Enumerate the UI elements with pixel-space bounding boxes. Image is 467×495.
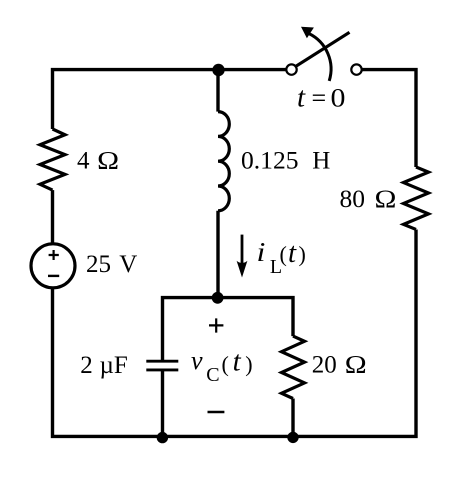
label 0.125 H	[241, 148, 330, 175]
wire 20-ohm branch lower	[291, 399, 294, 437]
node bottom-left junction	[157, 432, 168, 443]
resistor R1 4 ohm	[40, 129, 65, 190]
svg-text:(: (	[222, 352, 229, 377]
node top junction	[212, 64, 224, 76]
wire left middle segment	[51, 190, 54, 244]
resistor R2 80 ohm	[404, 167, 429, 229]
svg-text:): )	[245, 352, 252, 377]
svg-text:µF: µF	[100, 352, 128, 379]
wire middle branch upper	[216, 70, 219, 112]
svg-text:Ω: Ω	[375, 185, 397, 212]
wire capacitor branch lower	[161, 370, 164, 436]
svg-text:0: 0	[331, 84, 346, 113]
inductor L1 0.125 H	[218, 112, 229, 211]
resistor R3 20 ohm	[282, 336, 305, 398]
label 20 ohm	[312, 351, 367, 379]
switch SW1 right terminal	[351, 64, 361, 74]
svg-text:t: t	[233, 346, 242, 378]
label iL(t)	[257, 237, 306, 278]
node middle junction	[212, 292, 224, 304]
label 4 ohm	[77, 146, 119, 174]
svg-text:20: 20	[312, 352, 337, 379]
polarity minus sign for vC	[208, 411, 225, 414]
svg-text:i: i	[257, 238, 266, 267]
voltage source plus sign	[49, 250, 59, 260]
svg-text:Ω: Ω	[97, 146, 119, 173]
label 80 ohm	[340, 185, 397, 213]
svg-text:25: 25	[86, 251, 111, 278]
label 25 V	[86, 251, 137, 278]
label vC(t)	[191, 346, 253, 387]
voltage source minus sign	[48, 275, 59, 277]
svg-text:=: =	[312, 84, 327, 113]
wire capacitor branch upper and subcircuit top	[163, 298, 294, 362]
svg-text:Ω: Ω	[345, 351, 367, 378]
label 2 uF	[80, 352, 128, 379]
capacitor C1 plates	[146, 361, 178, 370]
voltage source V1 circle	[31, 244, 75, 288]
svg-text:v: v	[191, 346, 203, 375]
wire left-bottom-right segment	[53, 230, 417, 437]
svg-text:80: 80	[340, 186, 366, 213]
node bottom-right junction	[287, 432, 298, 443]
svg-text:t: t	[288, 237, 297, 269]
svg-text:t: t	[297, 82, 306, 114]
svg-text:): )	[299, 241, 306, 266]
label t = 0	[297, 82, 345, 114]
wire top-left segment	[53, 70, 287, 129]
current arrow iL	[237, 235, 248, 278]
svg-text:4: 4	[77, 147, 90, 174]
svg-text:2: 2	[80, 352, 93, 379]
switch SW1 motion arrow arc	[301, 27, 331, 81]
switch SW1 left terminal	[286, 64, 296, 74]
svg-text:H: H	[312, 148, 330, 175]
wire top-right segment	[362, 70, 416, 167]
switch SW1 blade	[296, 32, 350, 66]
svg-text:V: V	[119, 251, 137, 278]
wire middle branch lower	[216, 211, 219, 298]
polarity plus sign for vC	[209, 318, 223, 332]
svg-text:(: (	[280, 241, 287, 266]
svg-text:C: C	[206, 364, 219, 386]
svg-text:0.125: 0.125	[241, 148, 299, 175]
